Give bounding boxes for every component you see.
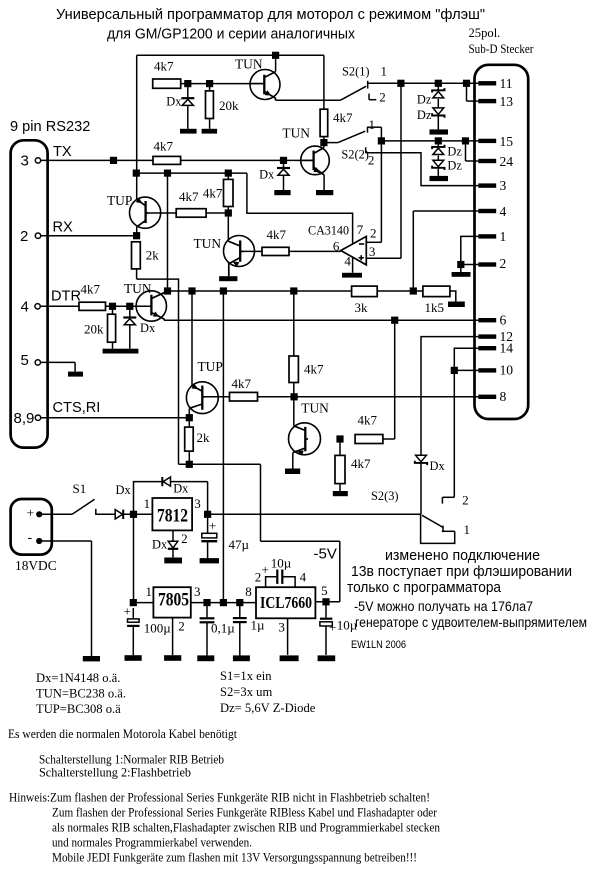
svg-text:TUN: TUN [194, 236, 222, 251]
svg-text:-5V можно получать на 176ла7: -5V можно получать на 176ла7 [354, 599, 533, 614]
svg-text:10µ: 10µ [271, 556, 292, 571]
svg-text:5: 5 [21, 352, 29, 369]
svg-text:4k7: 4k7 [351, 456, 371, 471]
svg-text:4k7: 4k7 [333, 110, 353, 125]
svg-text:2: 2 [370, 226, 377, 241]
svg-text:Dx: Dx [140, 321, 156, 335]
svg-text:10µ: 10µ [337, 618, 358, 633]
svg-text:9 pin RS232: 9 pin RS232 [10, 119, 90, 135]
svg-text:Es werden die normalen Motorol: Es werden die normalen Motorola Kabel be… [8, 727, 238, 741]
svg-text:2: 2 [255, 570, 261, 585]
svg-text:6: 6 [333, 239, 340, 254]
svg-text:4k7: 4k7 [154, 59, 174, 74]
svg-text:4: 4 [300, 570, 307, 585]
svg-text:-5V: -5V [314, 546, 337, 563]
svg-text:3: 3 [500, 178, 507, 193]
svg-text:18VDC: 18VDC [15, 558, 57, 573]
svg-text:4k7: 4k7 [358, 413, 378, 428]
svg-text:+: + [329, 620, 336, 635]
svg-text:+: + [209, 518, 216, 533]
svg-text:1: 1 [146, 584, 153, 599]
svg-text:13: 13 [500, 94, 514, 109]
svg-text:+: + [27, 506, 35, 521]
svg-text:2: 2 [20, 228, 28, 245]
svg-text:2: 2 [181, 531, 188, 546]
svg-text:4k7: 4k7 [203, 186, 223, 201]
svg-text:4k7: 4k7 [304, 362, 324, 377]
svg-text:1: 1 [144, 496, 151, 511]
svg-text:TUP: TUP [198, 359, 223, 374]
svg-text:2k: 2k [197, 430, 211, 445]
svg-text:Dz= 5,6V Z-Diode: Dz= 5,6V Z-Diode [220, 701, 316, 715]
svg-text:ICL7660: ICL7660 [260, 593, 312, 612]
svg-text:4k7: 4k7 [81, 282, 101, 297]
svg-text:7805: 7805 [158, 590, 189, 611]
svg-text:25pol.: 25pol. [469, 26, 501, 40]
svg-text:20k: 20k [84, 322, 104, 337]
svg-text:для GM/GP1200 и серии аналогич: для GM/GP1200 и серии аналогичных [107, 26, 355, 43]
svg-text:Schalterstellung 1:Normaler RI: Schalterstellung 1:Normaler RIB Betrieb [39, 753, 224, 767]
svg-text:1: 1 [381, 64, 388, 79]
svg-text:S2=3x um: S2=3x um [220, 685, 272, 699]
svg-text:als normales RIB schalten,Flas: als normales RIB schalten,Flashadapter z… [52, 821, 440, 835]
svg-text:2: 2 [462, 493, 469, 508]
svg-text:RX: RX [53, 220, 74, 236]
svg-text:Универсальный программатор для: Универсальный программатор для моторол с… [56, 6, 485, 23]
svg-text:изменено подключение: изменено подключение [385, 548, 540, 564]
svg-text:генераторе с удвоителем-выпрям: генераторе с удвоителем-выпрямителем [355, 615, 587, 630]
svg-text:4: 4 [21, 299, 29, 316]
svg-text:3: 3 [194, 584, 201, 599]
svg-text:Dx: Dx [259, 168, 275, 182]
svg-text:TUN: TUN [235, 57, 263, 72]
svg-text:2: 2 [178, 619, 185, 634]
svg-text:1µ: 1µ [251, 618, 266, 633]
svg-text:Dx: Dx [116, 483, 132, 497]
svg-text:EW1LN 2006: EW1LN 2006 [351, 639, 406, 651]
svg-text:3: 3 [194, 496, 201, 511]
svg-text:S2(1): S2(1) [342, 65, 370, 79]
svg-text:+: + [262, 562, 269, 577]
svg-text:только с программатора: только с программатора [347, 580, 502, 596]
svg-text:1: 1 [369, 117, 376, 132]
svg-text:6: 6 [500, 312, 507, 327]
svg-text:-: - [28, 531, 33, 546]
svg-text:Dz: Dz [417, 93, 432, 107]
svg-text:Dx: Dx [173, 482, 189, 496]
svg-text:15: 15 [500, 134, 514, 149]
svg-text:TUN: TUN [124, 281, 152, 296]
svg-text:3: 3 [21, 153, 29, 170]
svg-text:4k7: 4k7 [232, 376, 252, 391]
svg-text:und normales Programmierkabel: und normales Programmierkabel verwenden. [52, 836, 252, 850]
svg-text:20k: 20k [219, 98, 239, 113]
svg-text:CTS,RI: CTS,RI [53, 400, 101, 416]
svg-text:2: 2 [500, 256, 507, 271]
svg-text:Mobile JEDI Funkgeräte zum fla: Mobile JEDI Funkgeräte zum flashen mit 1… [52, 851, 417, 865]
svg-text:2k: 2k [146, 248, 160, 263]
svg-text:Schalterstellung 2:Flashbetrie: Schalterstellung 2:Flashbetrieb [39, 766, 191, 780]
svg-text:Zum flashen der Professional S: Zum flashen der Professional Series Funk… [52, 806, 437, 820]
svg-text:4k7: 4k7 [267, 227, 287, 242]
svg-text:Dx: Dx [152, 538, 168, 552]
svg-text:S2(2): S2(2) [341, 148, 369, 162]
svg-text:4k7: 4k7 [154, 139, 174, 154]
svg-text:CA3140: CA3140 [308, 224, 349, 238]
svg-text:Dx: Dx [166, 95, 182, 109]
svg-text:TUN: TUN [282, 126, 310, 141]
svg-text:Dz: Dz [447, 145, 462, 159]
svg-text:3: 3 [369, 244, 376, 259]
svg-text:10: 10 [500, 363, 514, 378]
svg-text:4k7: 4k7 [179, 189, 199, 204]
svg-text:TUN: TUN [301, 401, 329, 416]
svg-text:1k5: 1k5 [425, 300, 445, 315]
svg-text:Dx=1N4148 o.ä.: Dx=1N4148 o.ä. [36, 671, 120, 685]
svg-text:TUP: TUP [107, 193, 132, 208]
svg-text:1: 1 [500, 229, 507, 244]
svg-text:Dx: Dx [430, 459, 446, 473]
svg-text:8: 8 [500, 389, 507, 404]
svg-text:+: + [124, 604, 131, 619]
svg-text:2: 2 [368, 153, 375, 168]
svg-text:TUN=BC238 o.ä.: TUN=BC238 o.ä. [36, 687, 126, 701]
svg-text:7812: 7812 [157, 506, 188, 527]
svg-text:4: 4 [500, 204, 507, 219]
svg-text:2: 2 [379, 90, 386, 105]
svg-text:S2(3): S2(3) [371, 489, 399, 503]
svg-text:S1=1x ein: S1=1x ein [220, 669, 272, 683]
svg-text:0,1µ: 0,1µ [211, 621, 235, 636]
svg-text:1: 1 [464, 522, 471, 537]
svg-text:24: 24 [500, 154, 514, 169]
svg-text:14: 14 [500, 341, 514, 356]
svg-text:Dz: Dz [447, 159, 462, 173]
svg-text:8: 8 [245, 584, 252, 599]
svg-text:Hinweis:Zum flashen der Profes: Hinweis:Zum flashen der Professional Ser… [9, 791, 430, 805]
svg-text:3: 3 [278, 620, 285, 635]
svg-text:Dz: Dz [417, 108, 432, 122]
svg-text:S1: S1 [73, 481, 87, 496]
svg-text:47µ: 47µ [229, 537, 250, 552]
svg-text:4: 4 [344, 254, 351, 269]
svg-text:11: 11 [500, 76, 513, 91]
svg-text:3k: 3k [355, 300, 369, 315]
svg-text:7: 7 [357, 222, 364, 237]
svg-text:8,9: 8,9 [14, 410, 35, 427]
svg-text:TX: TX [53, 144, 72, 160]
svg-text:Sub-D Stecker: Sub-D Stecker [469, 42, 535, 56]
svg-text:TUP=BC308 o.ä: TUP=BC308 o.ä [36, 702, 121, 716]
svg-text:13в поступает при флэшировании: 13в поступает при флэшировании [351, 564, 572, 580]
svg-text:100µ: 100µ [144, 621, 172, 636]
svg-text:5: 5 [321, 583, 328, 598]
svg-text:DTR: DTR [51, 289, 81, 305]
